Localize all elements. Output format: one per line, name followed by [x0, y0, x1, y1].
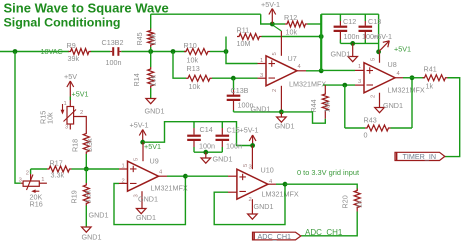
- wire +5V1 rail to C14 C15 and U10: [143, 122, 253, 146]
- svg-text:GND1: GND1: [275, 122, 295, 131]
- wire U7 output to U8 non-inverting input: [321, 69, 355, 71]
- svg-text:C13: C13: [368, 17, 381, 26]
- svg-text:R45: R45: [135, 32, 144, 45]
- resistor R19: [85, 169, 87, 183]
- node junction R45/R14 tap: [148, 49, 153, 54]
- wire C12 C13 ground rail: [340, 42, 378, 44]
- svg-text:GND1: GND1: [331, 50, 351, 59]
- svg-text:GND1: GND1: [145, 107, 165, 116]
- svg-text:2: 2: [371, 95, 377, 98]
- svg-text:39k: 39k: [68, 54, 80, 63]
- svg-text:1k: 1k: [426, 82, 434, 91]
- wire U8 V+ pin: [379, 52, 381, 62]
- ground GND1 under C12 C13: [352, 43, 354, 56]
- svg-text:3.3k: 3.3k: [84, 190, 93, 204]
- node junction ground tap C12/C13: [350, 41, 355, 46]
- svg-text:10k: 10k: [323, 101, 332, 113]
- svg-text:1: 1: [64, 101, 67, 107]
- wire R20 to ADC_CH1: [301, 212, 357, 236]
- ground GND1 under U8: [375, 108, 385, 113]
- svg-text:5: 5: [371, 58, 377, 61]
- svg-text:1: 1: [260, 58, 263, 64]
- wire junction to U9 non-inverting input: [86, 168, 119, 170]
- svg-text:Sine Wave to Square Wave: Sine Wave to Square Wave: [4, 1, 169, 16]
- svg-text:R10: R10: [184, 41, 197, 50]
- resistor R13: [186, 75, 212, 81]
- svg-text:LM321MFX: LM321MFX: [388, 86, 425, 95]
- wire R12 right to rail: [308, 23, 322, 25]
- svg-text:R11: R11: [237, 26, 250, 35]
- svg-text:3: 3: [260, 73, 263, 79]
- svg-text:LM321MFX: LM321MFX: [289, 80, 326, 89]
- svg-text:+5V: +5V: [64, 72, 77, 81]
- svg-text:5: 5: [243, 164, 249, 167]
- svg-text:100n: 100n: [344, 32, 360, 41]
- svg-text:1k: 1k: [355, 200, 364, 208]
- wire U9 V+ pin: [142, 142, 144, 161]
- node junction R10/R11/U7+: [224, 49, 229, 54]
- svg-text:3: 3: [65, 125, 68, 131]
- svg-text:R9: R9: [67, 41, 76, 50]
- svg-text:2: 2: [80, 110, 83, 116]
- svg-text:1: 1: [41, 177, 44, 183]
- svg-text:R12: R12: [284, 13, 297, 22]
- svg-text:R44: R44: [309, 99, 318, 112]
- svg-text:LM321MFX: LM321MFX: [262, 190, 299, 199]
- svg-text:ADC_CH1: ADC_CH1: [258, 232, 292, 241]
- op-amp U7: [266, 56, 297, 86]
- flag TIMER_IN: [395, 152, 445, 160]
- svg-text:R43: R43: [364, 116, 377, 125]
- ground GND1 under U9: [136, 209, 146, 214]
- wire U7 V+ pin: [280, 31, 282, 56]
- wire R44 bottom to ground node: [281, 112, 325, 123]
- svg-text:10k: 10k: [189, 82, 201, 91]
- resistor R44: [324, 85, 326, 92]
- svg-text:R14: R14: [132, 73, 141, 86]
- svg-text:10M: 10M: [237, 39, 251, 48]
- svg-text:2: 2: [249, 197, 252, 203]
- svg-text:10k: 10k: [149, 34, 158, 46]
- node junction ground tap C14/C15: [203, 150, 208, 155]
- svg-text:5: 5: [272, 52, 278, 55]
- svg-text:R19: R19: [70, 190, 79, 203]
- ground GND1 under R19: [82, 227, 92, 232]
- svg-text:18VAC: 18VAC: [41, 47, 63, 56]
- resistor R41: [423, 75, 448, 81]
- svg-text:TIMER_IN: TIMER_IN: [403, 152, 437, 161]
- svg-text:R16: R16: [30, 200, 43, 209]
- capacitor C13B2: [112, 47, 114, 56]
- wire U7 output feedback vertical: [320, 14, 322, 71]
- svg-text:10k: 10k: [45, 112, 54, 124]
- node junction C13B tap: [231, 76, 236, 81]
- svg-text:3: 3: [19, 177, 22, 183]
- wire R11 left leg: [225, 37, 227, 52]
- resistor R14: [150, 52, 152, 68]
- potentiometer R15: [69, 100, 71, 107]
- svg-text:+5V-1: +5V-1: [373, 32, 392, 41]
- wire U8 inverting input: [323, 84, 355, 86]
- resistor R9: [69, 49, 92, 55]
- wire C14 C15 ground rail: [194, 151, 222, 153]
- svg-text:C12: C12: [343, 17, 356, 26]
- node junction R17/R18/R19: [84, 167, 89, 172]
- node junction U7 ground: [279, 110, 284, 115]
- svg-text:GND1: GND1: [89, 211, 109, 220]
- capacitor C13B: [233, 78, 235, 90]
- op-amp U9: [128, 161, 159, 191]
- svg-text:1: 1: [358, 64, 361, 70]
- resistor R20: [356, 189, 358, 191]
- svg-text:+5V1: +5V1: [394, 45, 411, 54]
- resistor R43: [365, 125, 391, 131]
- wire R15 wiper to R18: [74, 117, 87, 132]
- svg-text:+5V-1: +5V-1: [240, 125, 259, 134]
- wire U9 inverting input loop: [114, 176, 185, 224]
- wire R43 to U8 output: [391, 127, 413, 129]
- wire U7 inverting input: [212, 77, 258, 79]
- svg-text:R13: R13: [187, 64, 200, 73]
- resistor R17: [31, 168, 47, 170]
- capacitor C12: [339, 14, 341, 21]
- svg-text:100n: 100n: [106, 58, 122, 67]
- svg-text:GND1: GND1: [82, 233, 102, 242]
- svg-text:GND1: GND1: [213, 155, 233, 164]
- wire 18VAC input rail: [0, 51, 69, 53]
- wire U10 output: [268, 183, 276, 185]
- svg-text:GND1: GND1: [383, 101, 403, 110]
- wire U8 output: [395, 77, 403, 79]
- svg-text:GND1: GND1: [138, 195, 158, 204]
- wire R41 to TIMER_IN: [445, 78, 460, 157]
- wire rail to C12 C13 and U8 supply: [321, 13, 378, 15]
- wire U9 output: [159, 175, 168, 177]
- svg-text:GND1: GND1: [251, 105, 271, 114]
- wire U10 V+ pin: [251, 146, 253, 170]
- wire R13 branch from input node: [173, 52, 186, 79]
- wire U9 output to U10 input: [185, 175, 228, 177]
- svg-text:0: 0: [364, 131, 368, 140]
- resistor R45: [148, 29, 154, 48]
- wire U8 feedback to R43: [344, 85, 346, 128]
- wire top bias rail: [151, 13, 261, 15]
- svg-text:2: 2: [26, 171, 29, 177]
- svg-text:+5V-1: +5V-1: [130, 120, 149, 129]
- ground GND1 under R14: [146, 99, 156, 104]
- wire U7 V- pin to ground: [280, 86, 282, 112]
- node junction U9 output: [183, 174, 188, 179]
- svg-text:R20: R20: [341, 195, 350, 208]
- wire C13B to U7 ground node: [234, 111, 282, 113]
- supply +5V1 node at U8: [376, 49, 381, 54]
- svg-text:Signal Conditioning: Signal Conditioning: [4, 15, 121, 29]
- op-amp U10: [237, 169, 268, 199]
- svg-text:+5V1: +5V1: [72, 89, 89, 98]
- svg-text:3.3k: 3.3k: [51, 171, 65, 180]
- wire R11 right leg: [262, 36, 322, 38]
- node junction U8 feedback: [342, 83, 347, 88]
- capacitor C13: [364, 14, 366, 21]
- svg-text:U8: U8: [388, 60, 397, 69]
- node junction U8 output: [410, 75, 415, 80]
- capacitor C15: [221, 122, 223, 128]
- svg-text:R17: R17: [50, 159, 63, 168]
- svg-text:1: 1: [122, 164, 125, 170]
- wire U7 output: [297, 70, 307, 72]
- node junction U10 output: [283, 182, 288, 187]
- node junction R11/U7 feedback: [319, 34, 324, 39]
- wire U7 non-inverting input: [226, 52, 258, 64]
- svg-text:LM321MFX: LM321MFX: [151, 184, 188, 193]
- svg-text:GND1: GND1: [254, 202, 274, 211]
- svg-text:GND1: GND1: [136, 213, 156, 222]
- svg-text:2: 2: [272, 89, 278, 92]
- svg-text:C14: C14: [200, 125, 213, 134]
- svg-text:U10: U10: [261, 166, 274, 175]
- node junction R13 tap: [171, 49, 176, 54]
- svg-text:100n: 100n: [226, 142, 242, 151]
- resistor R11: [237, 34, 262, 40]
- op-amp U8: [364, 63, 395, 93]
- svg-text:0 to 3.3V grid input: 0 to 3.3V grid input: [297, 168, 359, 177]
- svg-text:C15: C15: [227, 126, 240, 135]
- svg-text:100n: 100n: [199, 142, 215, 151]
- svg-text:3.3k: 3.3k: [85, 138, 94, 152]
- resistor R10: [184, 49, 210, 55]
- ground GND1 under C14 C15: [205, 152, 207, 158]
- svg-text:U9: U9: [150, 157, 159, 166]
- svg-text:R41: R41: [424, 65, 437, 74]
- resistor R12: [272, 23, 285, 25]
- svg-text:3: 3: [358, 79, 361, 85]
- svg-text:C13B: C13B: [231, 86, 249, 95]
- supply +5V-1 at U7: [270, 22, 275, 27]
- wire U10 inverting input loop: [214, 184, 285, 224]
- svg-text:+5V1: +5V1: [144, 142, 161, 151]
- svg-text:+5V-1: +5V-1: [261, 0, 280, 9]
- svg-text:R18: R18: [70, 139, 79, 152]
- wire U9 V- pin to ground: [141, 191, 143, 208]
- svg-text:5: 5: [134, 158, 140, 161]
- resistor R18: [83, 132, 89, 155]
- ground GND1 under U10: [248, 214, 258, 219]
- wire U8 V- pin to ground: [379, 93, 381, 108]
- svg-text:U7: U7: [288, 54, 297, 63]
- node 18VAC junction: [13, 49, 18, 54]
- flag ADC_CH1: [253, 232, 301, 240]
- wire U10 output to R20: [285, 184, 357, 188]
- svg-text:10k: 10k: [149, 75, 158, 87]
- ground GND1 under U7: [280, 112, 282, 117]
- svg-text:10k: 10k: [286, 28, 298, 37]
- potentiometer R16: [21, 182, 23, 184]
- wire U10 V- pin to ground: [251, 199, 253, 214]
- node junction U7 output: [319, 68, 324, 73]
- svg-text:C13B2: C13B2: [102, 38, 124, 47]
- svg-text:ADC_CH1: ADC_CH1: [305, 228, 343, 237]
- capacitor C14: [193, 122, 195, 128]
- wire left rail down to R16: [15, 52, 21, 184]
